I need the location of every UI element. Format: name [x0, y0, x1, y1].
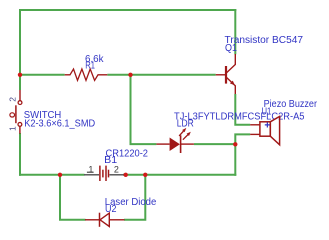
- svg-text:1: 1: [88, 164, 93, 174]
- LED (LDR) left pin: [156, 143, 169, 145]
- junction dot R1 left: [18, 73, 22, 77]
- battery cell plate short 2: [108, 170, 110, 178]
- switch K2 pin2 stub: [19, 90, 21, 101]
- wire emitter down and right to buzzer pin1: [235, 94, 250, 125]
- transistor emitter arrowhead: [230, 81, 235, 86]
- LED light arrow 1 shaft: [179, 131, 184, 136]
- svg-text:LDR: LDR: [177, 119, 194, 130]
- svg-text:Q1: Q1: [225, 43, 237, 54]
- battery pin1 label base bar: [87, 171, 94, 173]
- buzzer U1 pin1 stub: [250, 124, 260, 126]
- switch actuator pill: [10, 113, 15, 117]
- switch pin1 contact circle: [18, 123, 22, 127]
- wire VCC left vertical: [19, 10, 21, 90]
- svg-text:1: 1: [8, 126, 18, 131]
- battery cell plate long 2: [105, 166, 107, 181]
- switch pin1 stub: [19, 126, 21, 133]
- buzzer plus sign: [265, 122, 270, 127]
- wire laser right to rail: [124, 175, 145, 220]
- battery pin2 line: [109, 174, 124, 176]
- wire R1 right to transistor base: [107, 74, 215, 76]
- laser diode cathode bar: [99, 213, 101, 227]
- junction dot buzzer net: [233, 142, 237, 146]
- svg-text:R1: R1: [85, 60, 95, 71]
- junction dot laser right: [143, 173, 147, 177]
- wire VCC right vertical to collector: [234, 9, 236, 54]
- wire R1 net left: [20, 74, 65, 76]
- wire bottom rail left (to battery pin1): [19, 174, 85, 176]
- laser diode triangle outline: [100, 213, 109, 226]
- switch lever: [15, 105, 17, 123]
- battery B1 pin1 line: [84, 174, 99, 176]
- svg-text:U1: U1: [262, 106, 272, 117]
- LED triangle: [170, 138, 180, 152]
- battery cell plate long 1: [99, 166, 101, 181]
- buzzer pin2 stub: [250, 133, 260, 135]
- switch pin2 contact circle: [18, 101, 22, 105]
- buzzer body rect: [260, 122, 270, 136]
- LED light arrow 2 head: [187, 132, 191, 136]
- LED right pin: [181, 143, 194, 145]
- svg-text:2: 2: [8, 97, 18, 102]
- transistor base bar: [225, 66, 227, 84]
- wire VCC top horizontal: [19, 9, 236, 11]
- transistor collector: [226, 54, 235, 73]
- resistor R1: [65, 69, 108, 80]
- svg-text:U2: U2: [105, 204, 117, 215]
- junction dot battery pin2: [124, 173, 128, 177]
- wire right vertical up to junction: [234, 144, 236, 176]
- battery cell plate short 1: [102, 170, 104, 178]
- wire LED right to junction: [194, 143, 235, 145]
- wire bottom rail right (battery pin2 to corner): [123, 174, 236, 176]
- wire laser branch left vertical: [60, 175, 86, 220]
- junction dot LED branch: [128, 73, 132, 77]
- wire switch pin1 to bottom rail: [19, 133, 21, 176]
- LED light arrow 1 head: [182, 128, 186, 132]
- LED cathode bar: [180, 135, 182, 153]
- buzzer horn: [270, 116, 279, 144]
- svg-text:B1: B1: [104, 155, 117, 166]
- svg-text:K2-3.6×6.1_SMD: K2-3.6×6.1_SMD: [24, 119, 95, 130]
- wire LED branch vertical: [131, 75, 157, 144]
- transistor emitter: [226, 77, 235, 94]
- laser diode right pin: [109, 219, 124, 221]
- transistor Q1 base pin: [216, 74, 226, 76]
- junction dot laser left: [58, 173, 62, 177]
- svg-text:Piezo Buzzer: Piezo Buzzer: [264, 99, 318, 110]
- laser diode U2 left pin: [85, 219, 99, 221]
- wire junction up and right to buzzer pin2: [235, 134, 250, 145]
- LED light arrow 2 shaft: [183, 135, 188, 140]
